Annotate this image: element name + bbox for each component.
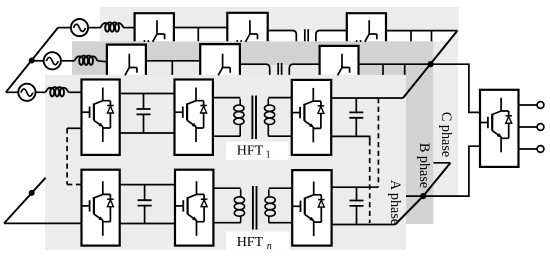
wire: supply diagonal bus <box>6 28 58 93</box>
wire: source A to inductor <box>36 91 46 93</box>
converter cell box C2 <box>227 13 267 42</box>
wire: to source A <box>6 91 19 93</box>
switch glyph B1 <box>125 54 137 76</box>
wire: HFT-B to B3 <box>289 64 319 75</box>
B phase plane tail <box>406 75 433 224</box>
converter cell box C3 <box>347 13 386 41</box>
node: neutral junction <box>29 190 35 196</box>
wire: A1-1 to cap bottom <box>120 132 175 134</box>
HFT1 secondary winding <box>265 99 275 137</box>
wire: source C to inductor <box>88 27 100 29</box>
terminal b <box>537 124 544 131</box>
H-bridge box A1-2 <box>175 80 213 155</box>
HFT1 label plate <box>226 142 289 160</box>
svg-text:n: n <box>267 241 272 252</box>
svg-text:HFT: HFT <box>237 143 264 158</box>
wire: output b <box>519 126 538 128</box>
HFT-B core bars <box>278 63 281 75</box>
svg-text:A phase: A phase <box>387 180 403 225</box>
node: supply junction B <box>29 58 35 64</box>
C phase plane tail <box>433 41 458 197</box>
converter cell box C1 <box>135 13 174 41</box>
switch glyph C1 <box>153 20 165 42</box>
wire: neutral return bottom <box>4 222 82 224</box>
rectifier box An-3 <box>292 170 331 246</box>
wire: An-1 to cap bottom <box>120 223 175 225</box>
hidden lower cell row C (white patches below C wire) <box>175 28 228 41</box>
wire: HFTn secondary bottom to An-3 <box>269 222 292 224</box>
terminal c <box>537 146 544 153</box>
wire: output c <box>519 148 538 150</box>
HFTn core <box>253 186 257 230</box>
wire: C negative stub <box>434 162 451 164</box>
converter cell box B1 <box>107 45 146 75</box>
wire: dc-link stub C <box>197 28 199 42</box>
wire: A1-3 bottom output <box>331 136 370 140</box>
HFT1 primary winding <box>234 99 244 137</box>
wire: dashed stack link 1 <box>369 140 371 223</box>
ellipsis dots C2 <box>236 40 238 42</box>
H-bridge box A1-1 <box>82 80 120 155</box>
svg-text:B phase: B phase <box>416 143 432 188</box>
wire: An-3 top output <box>332 186 379 188</box>
inductor C <box>101 22 124 31</box>
AC source A <box>18 84 35 101</box>
HFT1 core <box>252 96 256 140</box>
wire: to source B <box>32 60 44 62</box>
wire: HFT1 secondary top to A1-3 <box>268 97 292 99</box>
wire: positive rail to inverter <box>431 64 480 112</box>
IGBT U6 <box>293 182 325 237</box>
A phase plane <box>45 75 406 250</box>
AC source B <box>44 52 61 69</box>
wire: dashed series link down <box>66 128 68 184</box>
wire: An-2 to HFTn primary top <box>213 187 240 189</box>
HFTn secondary winding <box>265 189 275 223</box>
rectifier box A1-3 <box>292 80 331 155</box>
inverter box <box>480 90 519 167</box>
terminal a <box>537 102 544 109</box>
output capacitor row1 <box>355 98 357 136</box>
switch glyph B3 <box>338 54 350 76</box>
wire: dashed stack link 2 <box>377 98 379 187</box>
HFTn label plate <box>226 232 289 250</box>
wire: A1-1 to cap top <box>120 93 175 95</box>
IGBT U2 <box>175 88 207 143</box>
dc-link capacitor C1 <box>143 94 145 134</box>
wire: A1-2 to HFT1 primary bottom <box>213 135 240 137</box>
output capacitor row n <box>356 188 358 225</box>
wire: A1-3 top output <box>331 97 403 99</box>
wire: input return stub row1 <box>67 127 81 129</box>
inductor B <box>75 56 98 65</box>
wire: inductor C to cell <box>123 27 134 29</box>
IGBT U1 <box>82 88 114 143</box>
converter cell box B2 <box>200 44 240 75</box>
H-bridge box An-1 <box>82 170 120 246</box>
IGBT U5 <box>176 181 208 236</box>
wire: dc-link stub B <box>171 61 173 75</box>
wire: An-3 bottom output <box>332 224 396 226</box>
wire: HFTn secondary top to An-3 <box>269 187 292 189</box>
wire: inductor B to cell <box>97 61 107 62</box>
dc-link capacitor Cn <box>144 185 146 224</box>
ellipsis dots C3 <box>356 40 358 42</box>
negative rail diagonal <box>395 163 450 225</box>
H-bridge box An-2 <box>175 170 213 246</box>
wire: inductor A to cell <box>68 91 81 93</box>
wire: to source C <box>58 27 71 29</box>
wire: B1 to B2 <box>146 60 200 62</box>
node: positive rail junction <box>428 61 434 67</box>
wire: C output stub 1 <box>410 31 412 42</box>
wire: output a <box>519 104 538 106</box>
wire: dashed series link to row n <box>67 184 81 186</box>
wire: HFT-C to C3 <box>316 31 347 42</box>
wire: A1-2 to HFT1 primary top <box>213 97 240 99</box>
switch glyph C3 <box>365 20 377 42</box>
IGBT U7 <box>480 98 512 153</box>
B phase plane strip <box>72 41 433 75</box>
wire: B3 to junction <box>359 63 431 65</box>
wire: B output stub 1 <box>382 64 384 75</box>
wire: C output stub 2 <box>431 31 433 42</box>
C phase plane strip <box>100 7 459 41</box>
switch glyph B2 <box>218 54 230 76</box>
inductor A <box>46 87 69 96</box>
wire: C3 to C rail <box>386 30 457 32</box>
IGBT U3 <box>293 88 325 142</box>
HFT-C core bars <box>305 29 308 41</box>
node: negative rail junction <box>420 193 426 199</box>
svg-text:C phase: C phase <box>438 112 454 157</box>
switch glyph C2 <box>246 20 258 42</box>
wire: neutral diagonal <box>4 178 46 224</box>
wire: An-1 to cap top <box>120 184 175 186</box>
hidden lower cell row B (light patches below B wire) <box>146 61 200 75</box>
wire: B output stub 2 <box>404 64 406 75</box>
converter cell box B3 <box>320 46 359 75</box>
wire: C1 to C2 <box>174 27 227 29</box>
wire: C2 to HFT-C <box>268 31 297 42</box>
svg-text:HFT: HFT <box>237 235 264 250</box>
IGBT U4 <box>82 181 114 236</box>
wire: An-2 to HFTn primary bottom <box>213 222 240 224</box>
wire: source B to inductor <box>61 60 75 62</box>
wire: negative rail to inverter <box>406 146 480 196</box>
wire: B2 to HFT-B <box>240 64 270 75</box>
AC source C <box>71 19 88 36</box>
positive rail diagonal <box>403 31 457 98</box>
wire: HFT1 secondary bottom to A1-3 <box>268 135 292 137</box>
HFTn primary winding <box>234 189 244 223</box>
svg-text:1: 1 <box>266 150 271 161</box>
ellipsis dots C1 <box>143 40 145 42</box>
